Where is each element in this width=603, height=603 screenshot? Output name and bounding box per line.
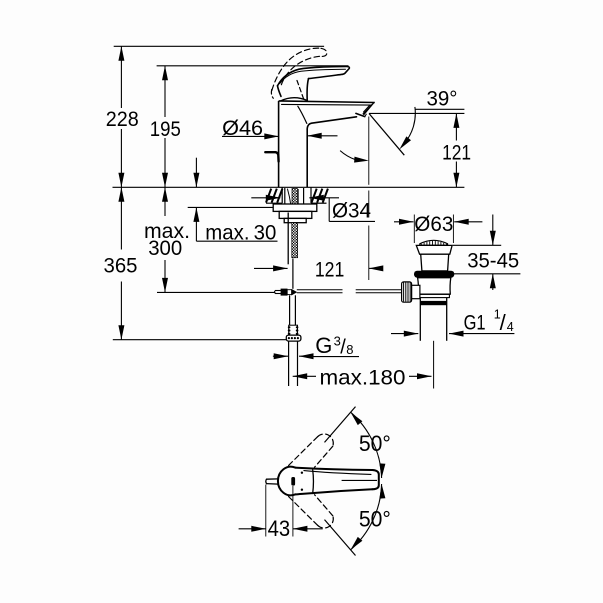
svg-text:43: 43 — [268, 516, 291, 541]
svg-text:35-45: 35-45 — [467, 249, 519, 273]
svg-text:195: 195 — [150, 117, 181, 141]
svg-text:G: G — [315, 333, 332, 358]
svg-text:50°: 50° — [359, 431, 391, 456]
svg-text:/: / — [500, 310, 507, 335]
svg-text:121: 121 — [315, 258, 345, 282]
svg-text:Ø63: Ø63 — [414, 212, 453, 236]
svg-text:365: 365 — [104, 254, 138, 278]
svg-text:121: 121 — [442, 141, 471, 165]
svg-text:39°: 39° — [427, 87, 458, 111]
svg-text:max.180: max.180 — [320, 365, 406, 389]
svg-text:300: 300 — [148, 236, 182, 260]
svg-text:4: 4 — [507, 320, 514, 334]
svg-text:G1: G1 — [464, 309, 486, 334]
svg-text:max. 30: max. 30 — [205, 220, 276, 244]
svg-text:228: 228 — [106, 107, 139, 131]
svg-text:8: 8 — [346, 342, 353, 357]
svg-text:Ø34: Ø34 — [332, 199, 371, 223]
svg-text:50°: 50° — [359, 507, 391, 532]
